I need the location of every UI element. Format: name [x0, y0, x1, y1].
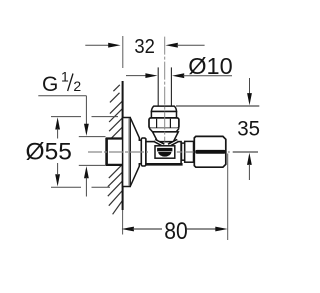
valve body block	[146, 142, 183, 165]
thread label leader underline	[38, 95, 86, 97]
dimension 35: bottom extension line at centerline	[233, 151, 258, 153]
dimension diameter 55: down arrowhead and shaft	[55, 163, 60, 187]
rosette base disc against wall	[123, 118, 131, 187]
thread top extension line	[79, 136, 106, 138]
dimension 80: right line	[187, 228, 217, 230]
dimension diameter 10: leader line	[183, 75, 232, 77]
thread label leader vertical	[85, 96, 87, 124]
dimension diameter 10: left arrowhead	[145, 73, 157, 78]
dimension 35: upper shaft	[249, 78, 251, 95]
thread label G 1/2	[42, 69, 81, 96]
svg-text:1: 1	[61, 69, 69, 85]
svg-text:Ø55: Ø55	[26, 138, 72, 165]
GROHE logo badge on body face	[155, 146, 175, 158]
valve stem neck large step	[185, 141, 194, 162]
dimension diameter 10: left arrow line	[126, 75, 147, 77]
dimension 80: left line	[133, 228, 162, 230]
thread dimension: lower shaft	[85, 178, 87, 197]
dimension 35: top extension line	[176, 105, 259, 107]
hex nut of compression fitting	[149, 118, 179, 128]
dimension 32: right arrowhead	[165, 43, 177, 48]
svg-text:80: 80	[164, 218, 188, 245]
dimension diameter 10: right arrowhead	[172, 73, 184, 78]
upper boss of valve body	[153, 132, 179, 142]
dimension 35: up arrowhead	[247, 153, 252, 165]
svg-text:Ø10: Ø10	[188, 53, 232, 79]
compression nut shoulder band	[151, 112, 176, 118]
handle knob	[194, 136, 226, 167]
svg-text:2: 2	[73, 78, 81, 94]
vertical outlet pipe (10 mm)	[158, 67, 171, 105]
extension line from wall down to 80 dimension	[122, 210, 124, 235]
threaded inlet G1/2 male end in wall	[106, 138, 123, 166]
dimension 32: left arrowhead	[108, 43, 120, 48]
dimension 80: left arrowhead	[122, 227, 134, 232]
svg-text:35: 35	[237, 116, 260, 141]
vertical centerline of outlet pipe	[164, 37, 166, 142]
dimension diameter 55: bottom extension line	[51, 186, 110, 188]
shaded chamfer wedges on body shoulder	[155, 141, 178, 146]
svg-text:32: 32	[134, 36, 155, 58]
dimension 80: right extension line	[227, 154, 229, 241]
thread dimension: up arrowhead	[84, 166, 89, 178]
valve stem neck small step	[182, 143, 185, 160]
dimension 35: lower shaft	[248, 164, 250, 180]
thread dimension: down arrowhead	[84, 124, 89, 136]
dimension diameter 55: top extension line	[51, 116, 118, 118]
dimension 32: left arrow line	[85, 44, 109, 46]
thread bottom extension line	[79, 164, 106, 166]
dimension 80: right arrowhead	[215, 227, 227, 232]
dimension diameter 55: up arrowhead and shaft	[55, 117, 60, 138]
horizontal centerline	[88, 151, 230, 153]
rosette cone	[130, 118, 141, 187]
dimension 32: right arrow line	[177, 44, 205, 46]
compression nut cap	[151, 106, 176, 111]
wall section hatching	[108, 85, 123, 215]
taper below hex nut	[149, 128, 179, 132]
wall face line	[122, 81, 124, 210]
inlet ring between rosette and body	[141, 138, 146, 166]
extension line from wall up to 32 dimension	[122, 36, 124, 68]
dimension 35: down arrowhead	[247, 93, 252, 105]
svg-text:G: G	[42, 73, 58, 96]
